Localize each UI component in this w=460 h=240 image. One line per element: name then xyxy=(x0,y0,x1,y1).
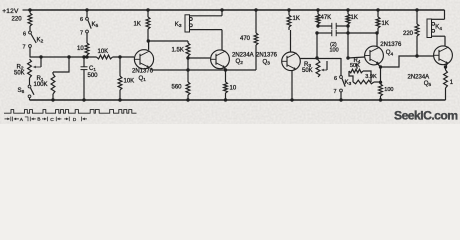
svg-text:+12V: +12V xyxy=(2,8,19,15)
svg-text:220: 220 xyxy=(12,16,23,23)
svg-text:10K: 10K xyxy=(124,79,135,85)
svg-text:1.5K: 1.5K xyxy=(172,48,184,54)
svg-text:220: 220 xyxy=(403,31,414,37)
svg-text:7: 7 xyxy=(23,45,26,51)
svg-text:1K: 1K xyxy=(382,21,389,27)
svg-text:6: 6 xyxy=(80,17,83,23)
svg-text:6: 6 xyxy=(23,32,26,38)
svg-text:100: 100 xyxy=(384,87,393,93)
svg-text:470: 470 xyxy=(240,36,251,42)
svg-text:D: D xyxy=(73,117,77,123)
svg-text:560: 560 xyxy=(172,85,183,91)
svg-text:2N1376: 2N1376 xyxy=(380,42,402,48)
svg-text:500: 500 xyxy=(88,73,99,79)
svg-text:47K: 47K xyxy=(321,15,332,21)
svg-text:1K: 1K xyxy=(293,16,300,22)
svg-text:B: B xyxy=(37,116,40,122)
svg-text:10: 10 xyxy=(230,86,237,92)
svg-text:C1: C1 xyxy=(89,66,96,72)
svg-text:1K: 1K xyxy=(134,22,141,28)
svg-text:1K: 1K xyxy=(351,15,358,21)
svg-text:7: 7 xyxy=(80,31,83,37)
svg-text:10K: 10K xyxy=(98,49,109,55)
svg-text:50K: 50K xyxy=(350,63,360,69)
svg-text:7: 7 xyxy=(334,89,337,95)
svg-text:6: 6 xyxy=(334,76,337,82)
svg-text:10: 10 xyxy=(77,46,84,52)
svg-text:C: C xyxy=(50,117,54,123)
svg-text:50K: 50K xyxy=(302,68,313,74)
svg-text:50K: 50K xyxy=(14,71,25,77)
svg-text:100: 100 xyxy=(330,48,339,54)
svg-text:100K: 100K xyxy=(34,82,48,88)
svg-text:2N1376: 2N1376 xyxy=(132,69,154,75)
svg-text:SeekIC.com: SeekIC.com xyxy=(394,109,458,123)
